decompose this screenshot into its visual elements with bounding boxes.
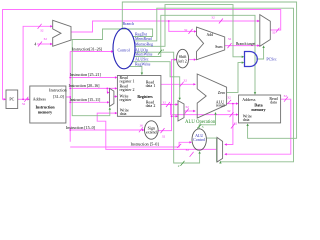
svg-text:32: 32 (184, 28, 188, 32)
wire ALU control right side down to bottom rail (206, 138, 216, 162)
arrow into Add1 bottom (50, 43, 53, 45)
svg-text:Address: Address (33, 96, 47, 101)
arrow Zero into AND gate bottom input (242, 61, 245, 63)
svg-text:Instruction [5–0]: Instruction [5–0] (131, 142, 160, 147)
svg-text:PC: PC (9, 97, 14, 102)
wire PC feedback loop from PCSrc mux output around top border to PC input (3, 10, 281, 100)
svg-text:Add: Add (207, 33, 214, 37)
svg-text:Instruction [15–0]: Instruction [15–0] (66, 125, 96, 130)
wire mux3 output back to Registers Write data (97, 113, 217, 149)
ellipse ALU control (192, 129, 206, 150)
svg-text:32: 32 (227, 96, 231, 100)
svg-text:Instruction[31–26]: Instruction[31–26] (72, 46, 103, 51)
svg-text:32: 32 (43, 37, 47, 41)
wire mux1 output to Write register (114, 96, 116, 98)
arrow into ALU control (189, 141, 192, 143)
arrow into mux3 input1 (left-pointing) (224, 153, 227, 155)
svg-text:Sum: Sum (215, 44, 223, 49)
arrow into mux4 top input (257, 20, 260, 22)
wire Read data 2 to mux2 and Data memory Write data (161, 105, 237, 115)
svg-text:16: 16 (139, 123, 143, 127)
node PC+4 branch junction (168, 20, 170, 22)
svg-text:Control: Control (193, 137, 206, 142)
arrow into ALU input 2 (193, 110, 196, 112)
wire PC output to instruction memory Address and up to Add1 (18, 98, 29, 100)
arrow into mux1 input0 (107, 91, 110, 93)
svg-text:register 2: register 2 (120, 87, 135, 92)
svg-text:Instruction [25–21]: Instruction [25–21] (70, 72, 102, 77)
svg-text:2: 2 (162, 48, 164, 52)
wire instruction[15-0] to sign extend (70, 129, 143, 131)
wire Data memory Read data loop to mux3 (225, 99, 291, 154)
svg-text:ALU Operation: ALU Operation (185, 120, 216, 125)
arrow MemRead into data memory bottom (246, 123, 248, 126)
svg-text:MemRead: MemRead (135, 36, 152, 41)
svg-text:data: data (120, 111, 127, 116)
wire instruction[5-0] to ALU control (70, 142, 190, 147)
svg-text:Branch target: Branch target (236, 42, 255, 46)
svg-text:32: 32 (183, 79, 187, 83)
adder Add2 (branch target) (197, 27, 225, 60)
arrow into PC (4, 98, 7, 100)
arrow into shift left 2 (174, 58, 177, 60)
wire RegWrite down to Registers (129, 66, 142, 74)
instruction memory (30, 86, 66, 123)
wire instruction[15-11] to mux1 (70, 101, 108, 103)
mux2 ALUSrc (178, 101, 184, 121)
svg-text:2: 2 (178, 164, 180, 168)
arrow RegWrite into Registers top (141, 73, 143, 76)
wire MemtoReg over top to AND gate (135, 5, 243, 57)
node instruction bus junctions (69, 77, 71, 79)
svg-text:32: 32 (40, 28, 44, 32)
svg-text:memory: memory (251, 107, 265, 112)
wire instruction bus vertical (66, 52, 70, 142)
svg-text:32: 32 (211, 15, 215, 19)
node read data 2 branch (170, 104, 172, 106)
wire MemRead over top to bottom rail and mux3 select (134, 8, 293, 162)
wire ALUOp down and along bottom to ALU control (135, 52, 200, 163)
svg-text:Instruction: Instruction (49, 88, 66, 93)
svg-text:memory: memory (38, 110, 52, 115)
register PC (6, 90, 18, 109)
arrow into Data memory Address (236, 102, 239, 104)
arrow into Add1 top (50, 25, 53, 27)
svg-text:RegWrite: RegWrite (135, 62, 151, 67)
arrow into IM Address (27, 98, 30, 100)
svg-text:result: result (216, 103, 226, 108)
svg-text:32: 32 (186, 148, 190, 152)
svg-text:Control: Control (117, 47, 130, 52)
data memory (239, 95, 281, 123)
wire instruction[31-26] to Control (70, 51, 112, 53)
arrow into Write register (115, 95, 118, 97)
arrow into mux1 input1 (107, 101, 110, 103)
node instr 20-16 branch (106, 88, 108, 90)
arrow ALU operation into ALU bottom (214, 112, 216, 115)
arrow into Read register 2 (115, 87, 118, 89)
wire constant 4 to adder (37, 43, 51, 45)
wire instruction[25-21] to Read register 1 (70, 77, 116, 79)
node ALU result branch (232, 103, 234, 105)
svg-text:32: 32 (162, 101, 166, 105)
svg-text:data: data (243, 117, 250, 122)
wire PCSrc from AND gate up to mux4 select (256, 47, 263, 59)
arrow PCSrc into mux4 bottom (262, 45, 264, 48)
svg-text:Address: Address (242, 97, 256, 102)
arrow into mux2 input1 (176, 115, 179, 117)
wire PC+4 adder output to top mux and branch adder (71, 21, 258, 32)
svg-text:[31–0]: [31–0] (53, 94, 64, 99)
ALU (197, 74, 226, 118)
arrow MemtoReg into mux3 bottom (219, 161, 221, 164)
wire shift-left-2 output to branch adder (189, 59, 195, 61)
wire Zero from ALU to AND gate (227, 63, 243, 93)
arrow RegDst into mux1 bottom (109, 107, 111, 110)
svg-text:32: 32 (228, 37, 232, 41)
svg-text:left 2: left 2 (178, 59, 186, 64)
control unit ellipse (113, 28, 135, 69)
svg-text:32: 32 (234, 121, 238, 125)
wire PC to PC+4 adder (23, 26, 51, 99)
node sign extend branch (171, 115, 173, 117)
svg-text:data 2: data 2 (146, 103, 156, 108)
wire ALU control output up to ALU (199, 113, 215, 128)
svg-text:32: 32 (227, 109, 231, 113)
arrow ALUSrc into mux2 top (179, 98, 181, 101)
wire mux2 output to ALU (184, 110, 194, 112)
svg-text:register: register (120, 97, 133, 102)
svg-text:Instruction [15–11]: Instruction [15–11] (70, 97, 102, 102)
svg-text:Instruction [20–16]: Instruction [20–16] (69, 83, 101, 88)
arrow into mux4 input1 (257, 44, 260, 46)
mux3 MemtoReg (mirrored) (217, 137, 223, 162)
arrow MemWrite into data memory top (254, 92, 256, 95)
AND gate PCSrc (245, 52, 258, 67)
wire Read data 1 to ALU (161, 83, 194, 85)
arrow into Add2 lower input (194, 58, 197, 60)
wire instruction[20-16] to Read register 2 and mux1 (70, 88, 116, 92)
arrow into Read register 1 (115, 76, 118, 78)
svg-text:MemtoReg: MemtoReg (135, 42, 153, 47)
wire Branch from Control top over right side down to below data memory (MemRead) (122, 2, 296, 138)
svg-text:4: 4 (34, 42, 36, 46)
mux4 PCSrc (260, 15, 271, 47)
wire PC+4 down into branch adder input (169, 21, 195, 31)
arrow into ALU input 1 (193, 83, 196, 85)
svg-text:32: 32 (283, 94, 287, 98)
adder Add1 (PC+4) (53, 20, 71, 46)
registers (117, 76, 160, 117)
svg-text:extend: extend (146, 129, 157, 134)
svg-text:data: data (270, 99, 277, 104)
arrow ALUOp into ALU control bottom (198, 151, 200, 154)
arrow into mux2 input0 (176, 103, 179, 105)
arrow Branch into AND gate top input (242, 56, 245, 58)
wire branch adder Sum output to top mux (225, 45, 258, 47)
arrow into Data memory Write data (236, 113, 239, 115)
svg-text:Branch: Branch (123, 21, 135, 26)
svg-text:32: 32 (272, 31, 276, 35)
arrow into Add2 top input (194, 30, 197, 32)
svg-text:data 1: data 1 (146, 83, 156, 88)
ellipse shift left 2 (177, 49, 189, 68)
ellipse sign extend (145, 121, 159, 139)
svg-text:32: 32 (162, 134, 166, 138)
mux1 RegDst (110, 88, 114, 106)
arrow into Control (111, 50, 114, 52)
arrow into sign extend (142, 129, 145, 131)
wire MemWrite over top to Data memory top (134, 15, 255, 93)
node PC branch junction (22, 98, 24, 100)
wire RegDst to mux1 select (72, 29, 152, 116)
wire ALU result to Data memory Address and down to mux3 (225, 104, 237, 145)
svg-text:3: 3 (202, 125, 204, 129)
svg-text:32: 32 (22, 102, 26, 106)
wire sign extend output riser to shift-left-2 and mux2 (158, 60, 176, 131)
svg-text:32: 32 (185, 105, 189, 109)
svg-text:PCSrc: PCSrc (266, 56, 276, 61)
wire ALUSrc down to mux2 select (132, 62, 179, 99)
svg-text:Zero: Zero (218, 90, 226, 95)
arrow into mux3 input0 (left-pointing) (224, 143, 227, 145)
arrow into Registers Write data (115, 112, 118, 114)
